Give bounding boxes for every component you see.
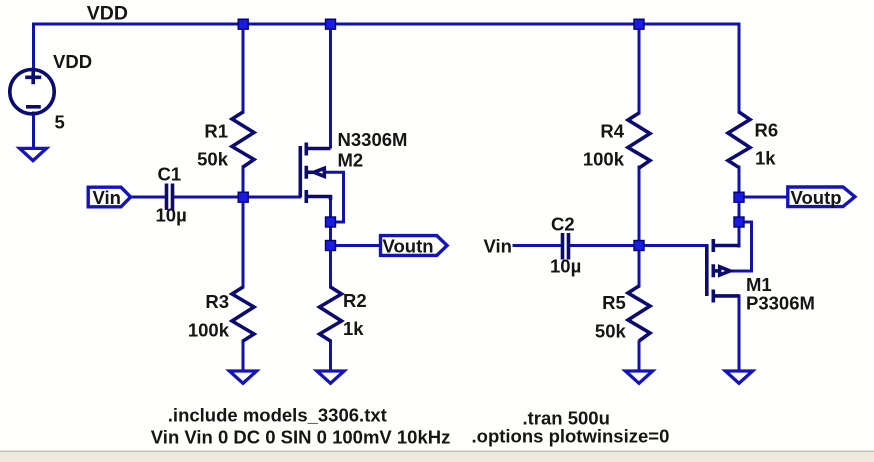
svg-text:100k: 100k bbox=[583, 149, 625, 170]
svg-text:R3: R3 bbox=[205, 291, 229, 312]
svg-text:.options plotwinsize=0: .options plotwinsize=0 bbox=[472, 426, 670, 447]
svg-text:50k: 50k bbox=[595, 321, 627, 342]
svg-text:10µ: 10µ bbox=[550, 256, 581, 277]
svg-text:Vin Vin 0 DC 0 SIN 0 100mV 10k: Vin Vin 0 DC 0 SIN 0 100mV 10kHz bbox=[151, 427, 451, 448]
svg-text:1k: 1k bbox=[755, 148, 776, 169]
svg-text:R4: R4 bbox=[600, 121, 624, 142]
svg-text:VDD: VDD bbox=[53, 51, 92, 72]
svg-text:100k: 100k bbox=[188, 320, 230, 341]
svg-text:R6: R6 bbox=[755, 120, 779, 141]
svg-text:5: 5 bbox=[55, 112, 65, 133]
svg-text:R5: R5 bbox=[602, 292, 626, 313]
svg-text:N3306M: N3306M bbox=[338, 129, 408, 150]
svg-text:Vin: Vin bbox=[93, 187, 121, 208]
svg-text:Voutp: Voutp bbox=[791, 187, 842, 208]
svg-text:Vin: Vin bbox=[484, 236, 512, 257]
svg-text:1k: 1k bbox=[343, 318, 364, 339]
svg-text:C1: C1 bbox=[158, 164, 182, 185]
svg-text:.include models_3306.txt: .include models_3306.txt bbox=[168, 405, 387, 426]
svg-text:P3306M: P3306M bbox=[746, 293, 815, 314]
svg-text:M2: M2 bbox=[338, 150, 364, 171]
svg-text:Voutn: Voutn bbox=[383, 236, 434, 257]
svg-text:R2: R2 bbox=[343, 290, 367, 311]
svg-text:R1: R1 bbox=[204, 121, 228, 142]
svg-text:10µ: 10µ bbox=[156, 205, 187, 226]
svg-text:50k: 50k bbox=[197, 149, 229, 170]
svg-text:VDD: VDD bbox=[87, 3, 128, 25]
svg-text:C2: C2 bbox=[551, 214, 575, 235]
